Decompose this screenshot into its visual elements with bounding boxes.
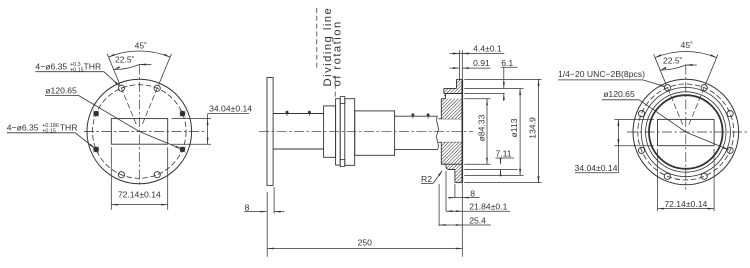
- svg-text:250: 250: [358, 237, 373, 247]
- svg-text:34.04±0.14: 34.04±0.14: [575, 163, 618, 173]
- svg-text:8: 8: [470, 188, 475, 198]
- svg-text:+0.15: +0.15: [42, 129, 56, 135]
- svg-text:7.11: 7.11: [496, 149, 512, 159]
- svg-text:1/4−20 UNC−2B(8pcs): 1/4−20 UNC−2B(8pcs): [558, 69, 645, 79]
- svg-text:22.5˚: 22.5˚: [115, 55, 135, 65]
- svg-text:ø120.65: ø120.65: [45, 86, 77, 96]
- svg-text:4−ø6.35: 4−ø6.35: [7, 123, 39, 133]
- svg-text:ø84.33: ø84.33: [476, 114, 486, 141]
- svg-text:THR: THR: [84, 61, 102, 71]
- svg-text:22.5˚: 22.5˚: [663, 55, 683, 65]
- svg-text:72.14±0.14: 72.14±0.14: [664, 199, 707, 209]
- svg-text:ø113: ø113: [509, 118, 519, 137]
- svg-text:4−ø6.35: 4−ø6.35: [35, 61, 67, 71]
- svg-text:+0.15: +0.15: [70, 67, 84, 73]
- svg-text:of rotation: of rotation: [332, 20, 344, 86]
- svg-text:34.04±0.14: 34.04±0.14: [209, 103, 252, 113]
- svg-text:21.84±0.1: 21.84±0.1: [469, 202, 507, 212]
- svg-text:134.9: 134.9: [528, 117, 538, 139]
- svg-text:0.91: 0.91: [473, 58, 490, 68]
- svg-text:THR: THR: [60, 123, 78, 133]
- svg-text:25.4: 25.4: [469, 215, 486, 225]
- svg-text:8: 8: [245, 203, 250, 213]
- svg-text:45˚: 45˚: [135, 41, 147, 51]
- svg-text:ø120.65: ø120.65: [603, 89, 635, 99]
- svg-text:72.14±0.14: 72.14±0.14: [118, 190, 161, 200]
- svg-text:6.1: 6.1: [501, 58, 513, 68]
- svg-text:R2: R2: [421, 174, 432, 184]
- svg-text:45˚: 45˚: [681, 40, 693, 50]
- svg-text:4.4±0.1: 4.4±0.1: [473, 43, 502, 53]
